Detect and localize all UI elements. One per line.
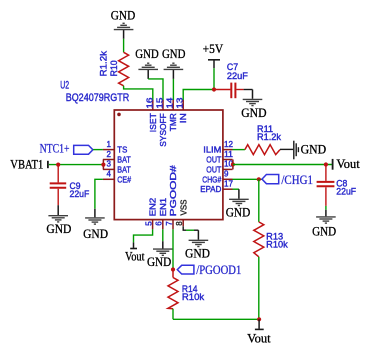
pin 2 BAT [103,150,131,165]
svg-text:GND: GND [83,227,108,241]
svg-text:Vout: Vout [125,249,145,263]
svg-text:R10: R10 [109,60,119,76]
svg-text:VBAT1: VBAT1 [10,158,43,172]
junction CHG#/R13 [257,177,261,181]
svg-text:22uF: 22uF [336,187,356,197]
svg-text:GND: GND [135,47,159,61]
ground GND (to pin 15 SYSOFF) [135,47,159,79]
svg-text:R10k: R10k [266,239,288,249]
wire GND to R10 top [123,39,125,53]
svg-text:13: 13 [176,97,185,109]
wire BAT pins tie [102,160,104,170]
svg-text:11: 11 [224,150,234,159]
svg-text:GND: GND [185,247,210,261]
svg-text:22uF: 22uF [227,71,248,81]
pin 5 EN2 [144,198,157,230]
svg-text:U2: U2 [60,79,69,91]
wire VBAT1 to BAT pins [49,164,104,166]
svg-text:Vout: Vout [336,157,360,171]
wire EPAD to GND [233,188,239,190]
ground GND (R11, sideways) [280,141,326,160]
svg-text:5: 5 [144,221,153,226]
capacitor C8 22uF [317,165,357,206]
pin 10 OUT [206,160,233,175]
wire R13 bottom [258,257,260,320]
pin 17 EPAD [200,180,233,195]
pin 8 VSS [175,199,188,226]
svg-text:BQ24079RGTR: BQ24079RGTR [66,92,130,104]
svg-text:GND: GND [241,106,267,120]
svg-text:+5V: +5V [203,42,224,56]
junction VBAT1/C9 [56,163,60,167]
IC U2 body [114,110,223,220]
pin 16 ISET [145,97,158,132]
svg-text:TS: TS [117,145,127,155]
wire OUT tie [232,160,234,170]
svg-text:/PGOOD1: /PGOOD1 [196,263,241,277]
power port VBAT1 [10,158,48,172]
wire pin 5 EN2 to Vout [134,229,153,242]
svg-text:GND: GND [111,8,136,22]
junction BAT tie [101,163,105,167]
wire pin 7 PGOOD# down [172,229,174,269]
svg-text:TMR: TMR [168,113,178,131]
pin 15 SYSOFF [156,97,169,147]
svg-text:GND: GND [162,47,186,61]
ground GND (C9) [46,205,71,236]
svg-text:IN: IN [178,113,188,123]
wire bottom bus [173,318,259,320]
ground GND (EN1) [147,241,173,269]
svg-text:CE#: CE# [117,174,131,184]
junction PGOOD#/R14 [171,267,175,271]
ground GND (EPAD) [226,189,251,219]
ground GND (C7) [241,90,267,120]
svg-text:EN2: EN2 [148,198,158,217]
pin 11 OUT [206,150,233,165]
junction OUT tie [231,162,235,166]
svg-text:15: 15 [156,97,165,109]
svg-text:GND: GND [312,225,336,239]
svg-text:ILIM: ILIM [203,145,221,155]
svg-text:3: 3 [107,160,112,169]
svg-text:12: 12 [224,140,234,149]
wire OUT to Vout [233,164,332,166]
wire pin 9 CHG# to label [233,178,263,180]
ground GND (C8) [312,210,336,239]
svg-text:OUT: OUT [206,155,222,165]
ground GND (CE#) [83,209,108,241]
pin 3 BAT [103,160,131,175]
junction +5V/C7 [212,87,216,91]
hier label NTC1+ [40,142,93,156]
pin 7 PGOOD# [165,165,178,229]
svg-text:/CHG1: /CHG1 [281,173,313,187]
wire R13 top [258,179,260,222]
svg-text:ISET: ISET [148,113,158,133]
pin 13 IN [176,97,189,123]
pin 14 TMR [166,97,179,131]
junction Vout/C8 [324,162,328,166]
wire R10 bottom to pin 16 [124,86,153,100]
hier label /CHG1 [262,173,313,187]
hier label /PGOOD1 [177,263,241,277]
svg-text:GND: GND [301,143,327,157]
resistor R11 1.2k (horizontal) [245,124,281,155]
svg-text:GND: GND [226,206,251,220]
svg-text:CHG#: CHG# [202,174,221,184]
pin 12 ILIM [203,140,233,155]
svg-text:GND: GND [147,255,172,269]
svg-text:17: 17 [224,180,234,189]
pin 9 CHG# [202,170,232,185]
power +5V [203,42,224,68]
wire R14 bottom [172,309,174,320]
svg-text:SYSOFF: SYSOFF [158,113,168,147]
power port Vout (right) [333,157,361,171]
svg-text:22uF: 22uF [70,189,90,199]
svg-text:OUT: OUT [206,164,222,174]
pin 1 TS [103,140,128,155]
resistor R14 10k [168,270,205,309]
wire GND to pin 15 [148,79,163,100]
wire junction to pin 13 IN [183,90,214,101]
svg-text:EPAD: EPAD [200,184,221,194]
power port Vout (bottom) [247,319,271,345]
resistor R10 (vertical, value 1.2k) [99,50,129,85]
svg-text:R10k: R10k [182,292,205,302]
svg-text:BAT: BAT [117,155,131,165]
ground GND (to pin 14 TMR) [162,47,186,79]
svg-text:EN1: EN1 [158,198,168,217]
svg-text:GND: GND [46,222,71,236]
capacitor C7 22uF [214,62,248,98]
wire pin 12 to R11 [233,149,245,151]
svg-text:NTC1+: NTC1+ [40,142,70,156]
svg-text:14: 14 [166,97,175,109]
svg-text:Vout: Vout [247,330,271,345]
pin-1 marker dot [117,113,121,117]
ground GND top-left (above R10) [111,8,136,39]
ground GND (VSS) [185,230,210,260]
svg-text:1: 1 [107,140,112,149]
svg-text:6: 6 [155,221,164,226]
svg-text:16: 16 [145,97,154,109]
wire +5V down to junction [213,68,215,89]
resistor R13 10k [254,222,288,257]
svg-text:4: 4 [107,170,112,179]
svg-text:R1.2k: R1.2k [257,132,281,142]
junction bottom Vout [257,317,261,321]
power port Vout (pin 5) [125,242,145,263]
pin 4 CE# [103,170,131,185]
wire pin 6 EN1 to GND [162,229,164,241]
svg-text:8: 8 [175,221,184,226]
pin 6 EN1 [155,198,168,230]
wire GND to pin 14 [172,79,174,100]
svg-text:R1.2k: R1.2k [99,50,109,76]
svg-text:9: 9 [224,170,229,179]
svg-text:2: 2 [107,150,112,159]
svg-text:7: 7 [165,221,174,226]
capacitor C9 22uF [50,165,90,206]
svg-text:PGOOD#: PGOOD# [168,165,178,216]
svg-text:BAT: BAT [117,164,131,174]
wire pin 4 CE# to GND [95,179,103,209]
svg-text:VSS: VSS [178,199,188,215]
wire C8 to GND [325,206,327,210]
wire pin 8 VSS to GND [183,226,186,230]
wire NTC1+ to pin 1 [93,149,103,151]
